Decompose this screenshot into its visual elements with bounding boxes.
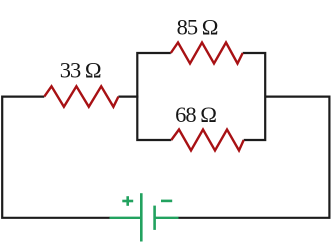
- svg-text:33 Ω: 33 Ω: [60, 58, 101, 83]
- svg-text:85 Ω: 85 Ω: [177, 14, 218, 39]
- svg-text:68 Ω: 68 Ω: [175, 102, 216, 127]
